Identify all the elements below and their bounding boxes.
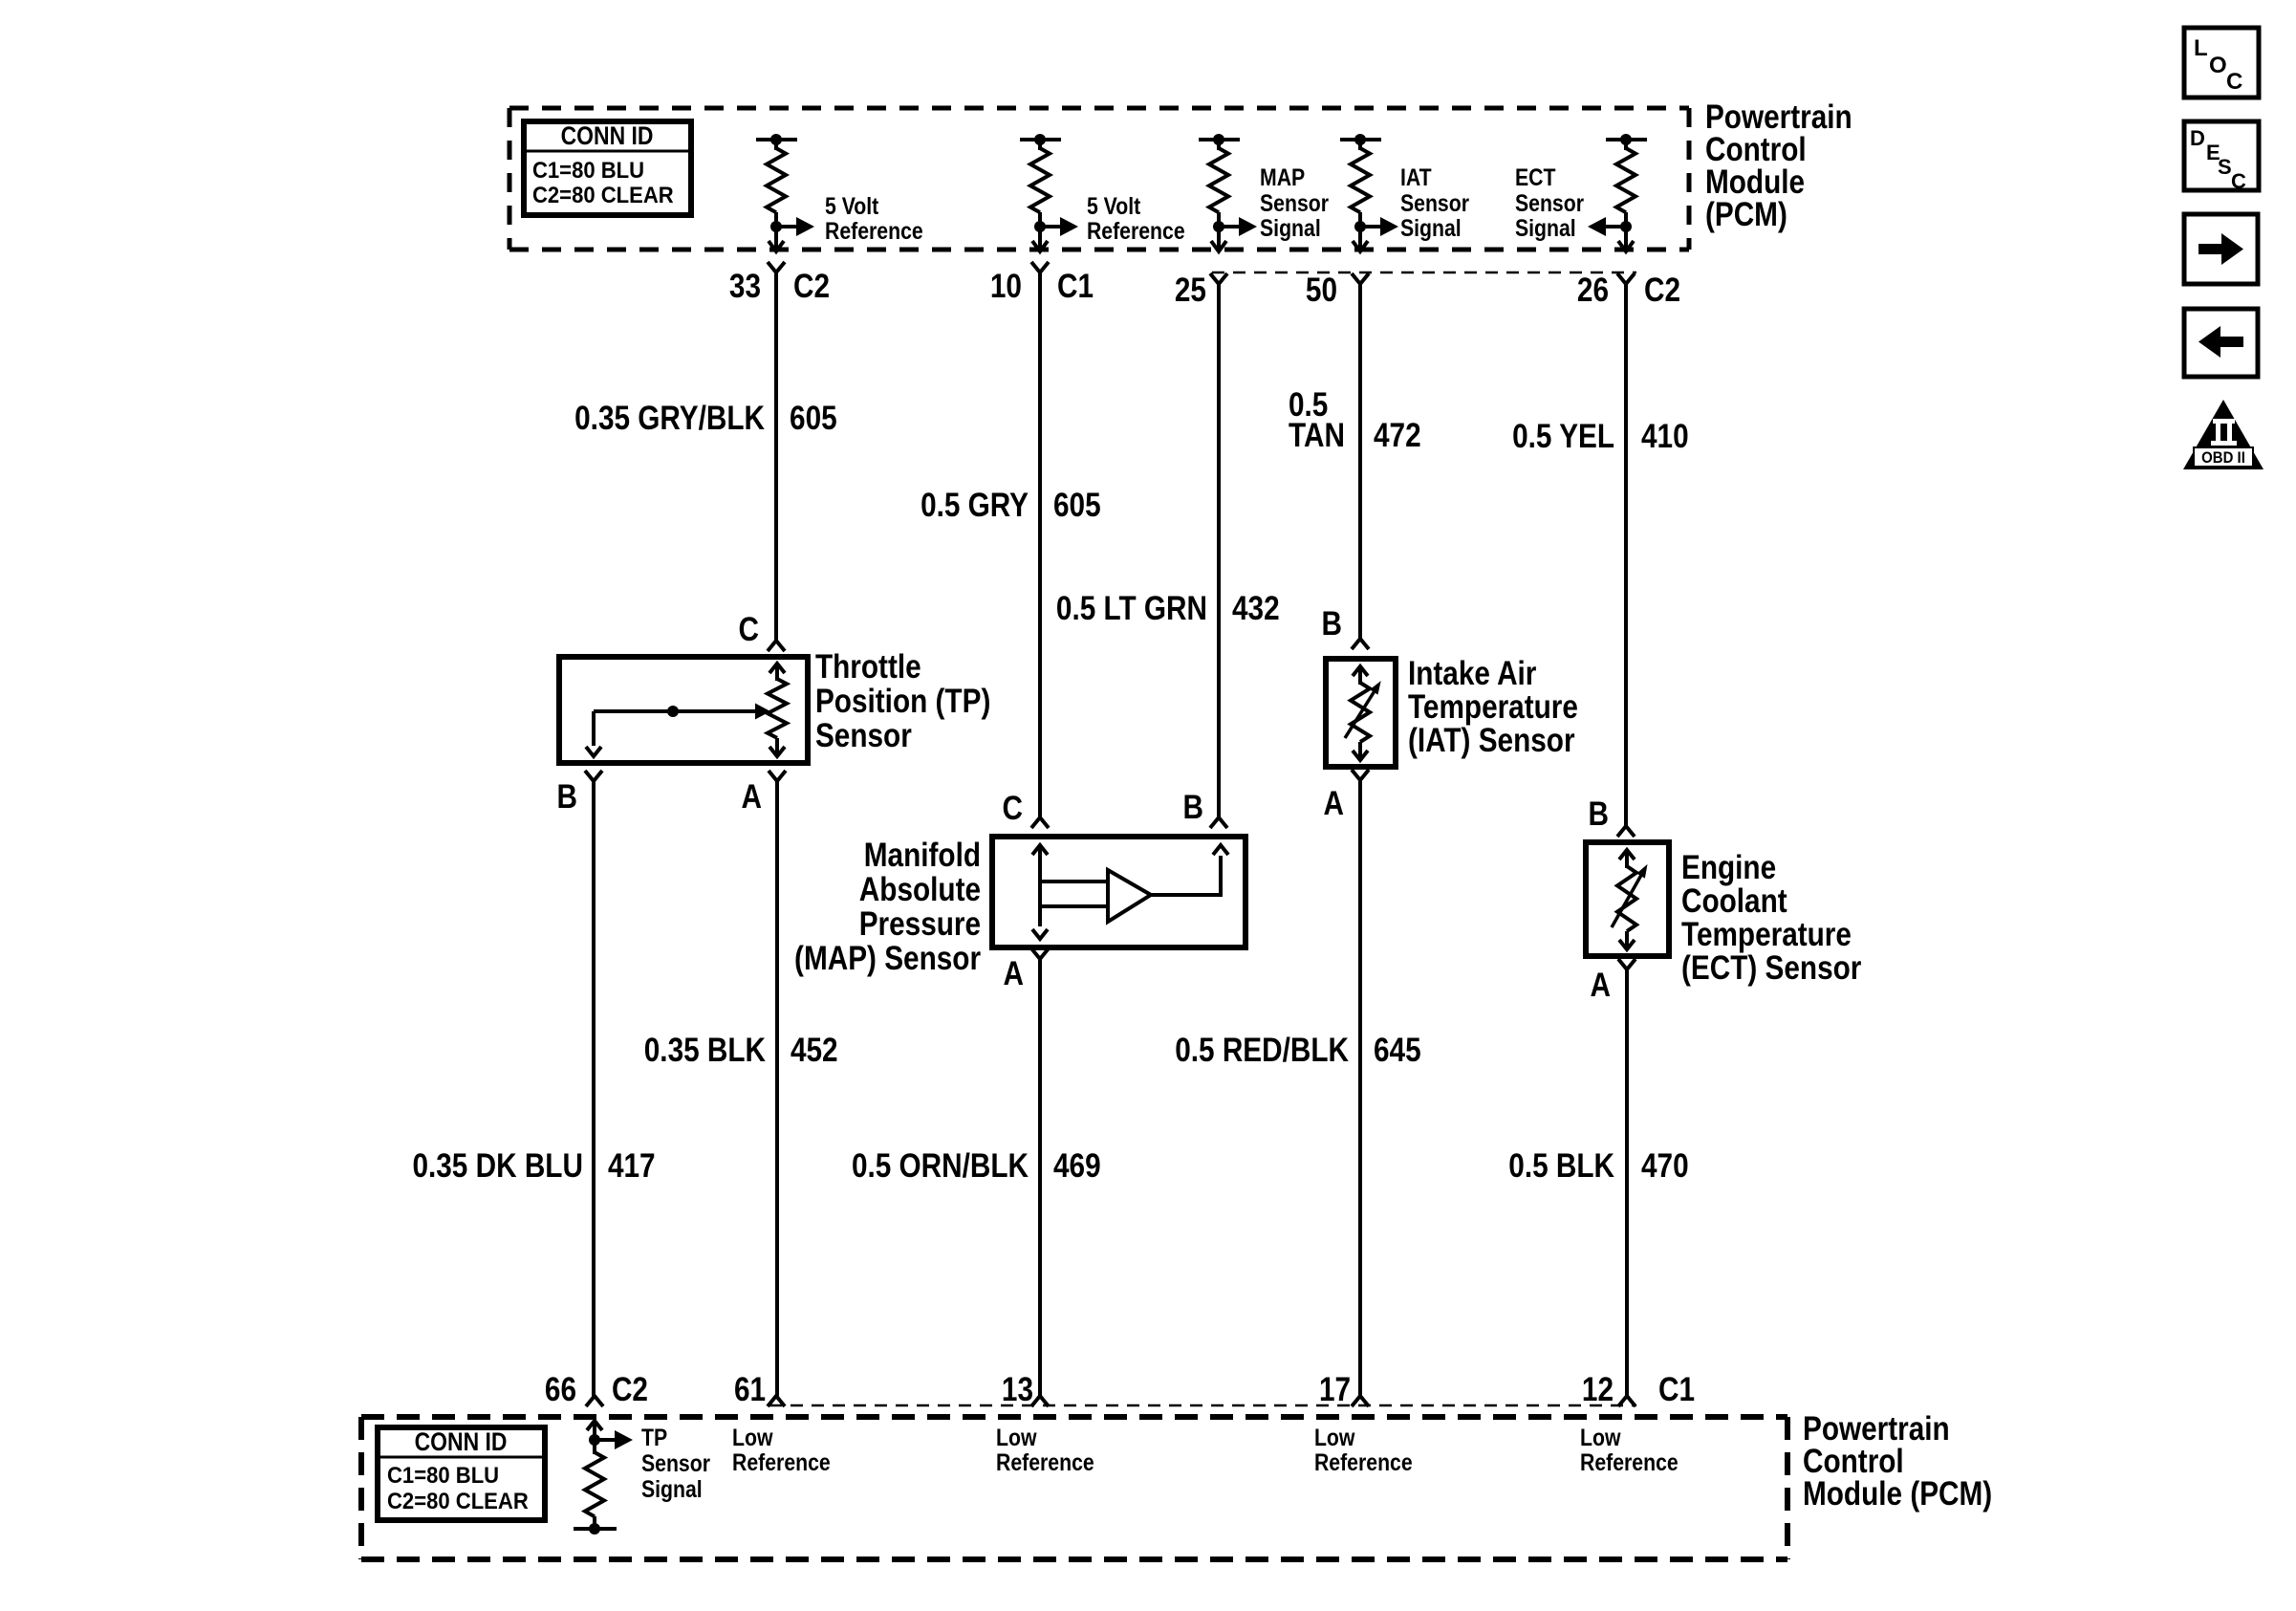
svg-text:L: L	[2194, 35, 2208, 61]
svg-text:Reference: Reference	[1087, 217, 1185, 244]
svg-text:Powertrain: Powertrain	[1803, 1410, 1950, 1448]
connector pin 17	[1352, 1396, 1369, 1406]
Manifold Absolute Pressure (MAP) Sensor box	[992, 837, 1245, 947]
icon back arrow box	[2184, 309, 2258, 377]
connector fork IAT pin A	[1352, 770, 1369, 780]
svg-text:Sensor: Sensor	[1260, 189, 1329, 216]
svg-text:Low: Low	[1314, 1424, 1355, 1450]
TP wiper arm	[594, 709, 755, 713]
connector pin 50	[1352, 273, 1369, 284]
PCM pull-up resistor R5 (ECT signal)	[1606, 138, 1647, 142]
svg-text:0.5 GRY: 0.5 GRY	[921, 487, 1029, 524]
svg-text:25: 25	[1175, 272, 1206, 309]
svg-text:432: 432	[1232, 590, 1280, 627]
PCM bottom dashed box (Powertrain Control Module)	[361, 1414, 1787, 1420]
svg-text:TP: TP	[641, 1424, 667, 1450]
wire 469 ORN/BLK MAP-A to pin13	[1038, 959, 1042, 1396]
icon LOC box	[2184, 28, 2259, 98]
svg-text:33: 33	[729, 268, 761, 305]
svg-text:Position (TP): Position (TP)	[815, 683, 990, 720]
svg-text:C2=80 CLEAR: C2=80 CLEAR	[387, 1488, 529, 1513]
svg-text:Low: Low	[1580, 1424, 1621, 1450]
svg-text:C: C	[1002, 790, 1022, 827]
IAT thermistor	[1353, 666, 1368, 676]
connector fork IAT pin B	[1352, 639, 1369, 649]
svg-text:26: 26	[1577, 272, 1609, 309]
connector fork TP pin B	[585, 771, 602, 781]
svg-text:CONN ID: CONN ID	[561, 121, 654, 150]
svg-text:CONN ID: CONN ID	[415, 1427, 508, 1456]
svg-text:470: 470	[1641, 1147, 1689, 1185]
svg-text:Reference: Reference	[825, 217, 923, 244]
TP signal input resistor inside PCM	[587, 1421, 602, 1430]
svg-text:Coolant: Coolant	[1681, 882, 1787, 920]
svg-text:Sensor: Sensor	[815, 717, 912, 754]
svg-text:A: A	[1004, 955, 1024, 992]
svg-text:0.5 ORN/BLK: 0.5 ORN/BLK	[852, 1147, 1029, 1185]
svg-text:C2: C2	[612, 1371, 648, 1408]
svg-text:Reference: Reference	[1580, 1448, 1679, 1475]
PCM pull-up resistor R1 (TP 5V ref)	[756, 138, 797, 142]
Intake Air Temperature (IAT) Sensor box	[1326, 659, 1396, 767]
svg-text:C1=80 BLU: C1=80 BLU	[387, 1462, 499, 1488]
svg-text:(IAT) Sensor: (IAT) Sensor	[1408, 722, 1575, 759]
svg-text:Low: Low	[996, 1424, 1037, 1450]
PCM top dashed box (Powertrain Control Module)	[509, 106, 1689, 111]
svg-text:410: 410	[1641, 418, 1689, 455]
connector pin 33 C2	[768, 262, 785, 272]
svg-text:Temperature: Temperature	[1408, 688, 1578, 726]
svg-text:0.5 YEL: 0.5 YEL	[1512, 418, 1614, 455]
svg-text:B: B	[1589, 795, 1609, 833]
wire 410 pin26 to ECT sensor B	[1624, 284, 1628, 826]
svg-text:0.35 BLK: 0.35 BLK	[644, 1032, 767, 1069]
svg-text:Throttle: Throttle	[815, 648, 921, 686]
svg-text:A: A	[1324, 785, 1344, 822]
svg-text:OBD II: OBD II	[2201, 449, 2245, 467]
svg-text:Control: Control	[1705, 131, 1807, 168]
svg-text:O: O	[2209, 53, 2227, 78]
icon OBD II triangle	[2183, 400, 2264, 469]
Throttle Position (TP) Sensor box	[559, 657, 808, 763]
Engine Coolant Temperature (ECT) Sensor box	[1586, 842, 1669, 956]
svg-text:Powertrain: Powertrain	[1705, 98, 1852, 136]
svg-text:C: C	[2231, 169, 2246, 193]
icon DESC box	[2184, 121, 2259, 190]
arrow into connector at pin under R2 (MAP 5V ref)	[1038, 239, 1042, 250]
svg-text:0.5 BLK: 0.5 BLK	[1508, 1147, 1614, 1185]
svg-text:B: B	[1322, 605, 1342, 642]
connector fork ECT pin B	[1617, 826, 1635, 837]
MAP internal amplifier triangle	[1108, 870, 1151, 922]
ECT thermistor	[1619, 850, 1635, 860]
MAP internal output lead	[1151, 856, 1221, 895]
svg-text:Sensor: Sensor	[641, 1449, 710, 1476]
svg-text:0.35 DK BLU: 0.35 DK BLU	[412, 1147, 582, 1185]
svg-text:605: 605	[1053, 487, 1101, 524]
icon forward arrow box	[2184, 214, 2258, 284]
svg-text:0.5 RED/BLK: 0.5 RED/BLK	[1175, 1032, 1349, 1069]
wire 417 DK BLU TP-B to pin66	[592, 781, 596, 1396]
wire 472 pin50 to IAT sensor B	[1358, 284, 1362, 639]
svg-text:IAT: IAT	[1400, 163, 1432, 190]
arrow into connector at pin under R5 (ECT signal)	[1624, 239, 1628, 250]
wire 432 pin25 to MAP sensor B	[1217, 284, 1221, 817]
svg-text:Absolute: Absolute	[859, 871, 981, 908]
wire 605/432 pin10 to MAP sensor C	[1038, 272, 1042, 817]
svg-text:TAN: TAN	[1289, 417, 1345, 454]
svg-text:452: 452	[791, 1032, 838, 1069]
svg-text:472: 472	[1374, 417, 1421, 454]
wire 645 RED/BLK IAT-A to pin17	[1358, 780, 1362, 1396]
svg-text:Manifold: Manifold	[864, 837, 981, 874]
CONN ID table bottom	[378, 1427, 545, 1520]
svg-text:C2=80 CLEAR: C2=80 CLEAR	[532, 182, 674, 207]
svg-text:A: A	[1591, 967, 1611, 1004]
svg-text:S: S	[2218, 155, 2232, 179]
svg-text:C: C	[2226, 69, 2242, 95]
svg-text:Reference: Reference	[996, 1448, 1094, 1475]
svg-text:66: 66	[545, 1371, 576, 1408]
svg-text:Module (PCM): Module (PCM)	[1803, 1475, 1992, 1513]
wire 452 BLK TP-A to pin61	[775, 781, 779, 1396]
svg-text:B: B	[1183, 789, 1203, 826]
svg-text:469: 469	[1053, 1147, 1101, 1185]
svg-text:Signal: Signal	[1260, 214, 1321, 241]
svg-text:C2: C2	[1644, 272, 1680, 309]
svg-text:Sensor: Sensor	[1400, 189, 1469, 216]
svg-text:C1=80 BLU: C1=80 BLU	[532, 157, 644, 183]
svg-text:605: 605	[790, 400, 837, 437]
svg-text:(MAP) Sensor: (MAP) Sensor	[794, 940, 981, 977]
connector pin 12 C1	[1618, 1396, 1635, 1406]
arrow into connector at pin under R1 (TP 5V ref)	[774, 239, 778, 250]
svg-text:Signal: Signal	[1515, 214, 1576, 241]
svg-text:B: B	[557, 778, 577, 816]
wire 605 GRY/BLK pin33 to TP sensor C	[774, 272, 778, 641]
connector fork MAP pin C	[1031, 817, 1049, 828]
PCM pull-up resistor R2 (MAP 5V ref)	[1020, 138, 1061, 142]
svg-text:Intake Air: Intake Air	[1408, 655, 1537, 692]
thin dashed connector line pins 25-50-26	[1212, 272, 1636, 274]
svg-text:C: C	[739, 611, 759, 648]
PCM pull-up resistor R4 (IAT signal)	[1340, 138, 1381, 142]
svg-text:Module: Module	[1705, 163, 1805, 201]
connector pin 25	[1210, 273, 1227, 284]
svg-text:417: 417	[608, 1147, 656, 1185]
svg-text:C1: C1	[1658, 1371, 1695, 1408]
svg-text:Engine: Engine	[1681, 849, 1776, 886]
connector fork TP pin C	[768, 641, 785, 651]
connector pin 26 C2	[1617, 273, 1635, 284]
svg-text:17: 17	[1319, 1371, 1351, 1408]
svg-text:Low: Low	[732, 1424, 773, 1450]
svg-text:MAP: MAP	[1260, 163, 1305, 190]
connector fork MAP pin B	[1210, 817, 1227, 828]
svg-text:Sensor: Sensor	[1515, 189, 1584, 216]
svg-text:0.5 LT GRN: 0.5 LT GRN	[1056, 590, 1207, 627]
connector fork ECT pin A	[1618, 959, 1635, 969]
svg-text:(PCM): (PCM)	[1705, 196, 1787, 233]
thin dashed connector line pins 61-13-17-12	[769, 1404, 1636, 1407]
svg-text:5 Volt: 5 Volt	[1087, 192, 1141, 219]
svg-text:50: 50	[1306, 272, 1337, 309]
svg-text:Control: Control	[1803, 1443, 1904, 1480]
MAP internal input leads	[1040, 880, 1107, 883]
svg-text:0.35 GRY/BLK: 0.35 GRY/BLK	[574, 400, 765, 437]
svg-text:12: 12	[1582, 1371, 1614, 1408]
svg-text:Pressure: Pressure	[859, 905, 981, 943]
svg-text:10: 10	[990, 268, 1022, 305]
svg-text:ECT: ECT	[1515, 163, 1555, 190]
svg-text:C1: C1	[1057, 268, 1094, 305]
svg-text:(ECT) Sensor: (ECT) Sensor	[1681, 949, 1862, 987]
svg-text:Signal: Signal	[1400, 214, 1462, 241]
arrow into connector at pin under R4 (IAT signal)	[1358, 239, 1362, 250]
connector fork TP pin A	[769, 771, 786, 781]
svg-text:Reference: Reference	[732, 1448, 831, 1475]
svg-text:A: A	[741, 778, 761, 816]
connector fork MAP pin A	[1031, 948, 1049, 959]
MAP internal pressure input arrows	[1032, 845, 1048, 855]
TP potentiometer resistive element	[769, 664, 785, 673]
connector pin 61	[768, 1396, 785, 1406]
wire 470 BLK ECT-A to pin12	[1625, 969, 1629, 1396]
connector pin 10 C1	[1031, 262, 1049, 272]
svg-text:5 Volt: 5 Volt	[825, 192, 879, 219]
PCM pull-up resistor R3 (MAP signal)	[1199, 138, 1240, 142]
svg-text:D: D	[2190, 126, 2205, 150]
svg-text:61: 61	[734, 1371, 766, 1408]
svg-text:C2: C2	[793, 268, 830, 305]
svg-text:13: 13	[1002, 1371, 1033, 1408]
svg-text:Signal: Signal	[641, 1475, 703, 1502]
connector pin 66 C2	[586, 1396, 603, 1406]
arrow into connector at pin under R3 (MAP signal)	[1217, 239, 1221, 250]
CONN ID table top	[524, 121, 691, 215]
svg-text:645: 645	[1374, 1032, 1421, 1069]
connector pin 13	[1031, 1396, 1049, 1406]
svg-text:Temperature: Temperature	[1681, 916, 1852, 953]
svg-text:Reference: Reference	[1314, 1448, 1413, 1475]
